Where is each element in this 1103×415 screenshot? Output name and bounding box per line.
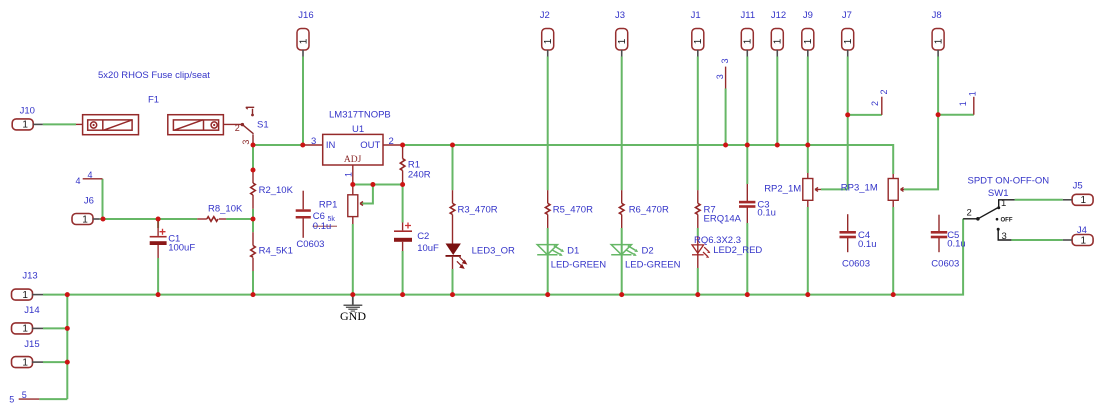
svg-text:D2: D2 xyxy=(642,246,654,257)
svg-text:U1: U1 xyxy=(352,124,364,135)
svg-text:1: 1 xyxy=(22,357,28,368)
svg-text:GND: GND xyxy=(340,309,366,323)
svg-text:RP3_1M: RP3_1M xyxy=(841,183,878,194)
svg-text:C0603: C0603 xyxy=(842,259,870,270)
svg-text:J14: J14 xyxy=(24,305,39,316)
svg-text:0.1u: 0.1u xyxy=(858,239,877,250)
svg-text:1: 1 xyxy=(1001,198,1006,209)
svg-text:2: 2 xyxy=(967,208,972,219)
svg-text:1: 1 xyxy=(843,38,854,44)
svg-text:J16: J16 xyxy=(298,10,313,21)
svg-text:D1: D1 xyxy=(567,246,579,257)
svg-text:OUT: OUT xyxy=(360,140,380,151)
svg-text:1: 1 xyxy=(934,38,945,44)
svg-text:SPDT ON-OFF-ON: SPDT ON-OFF-ON xyxy=(968,176,1050,187)
svg-text:1: 1 xyxy=(22,120,28,131)
svg-text:J15: J15 xyxy=(24,339,39,350)
svg-text:5: 5 xyxy=(9,395,14,405)
svg-text:R2_10K: R2_10K xyxy=(259,185,294,196)
svg-text:1: 1 xyxy=(298,38,309,44)
svg-text:J2: J2 xyxy=(540,10,550,21)
svg-text:R4_5K1: R4_5K1 xyxy=(259,246,293,257)
svg-text:R8_10K: R8_10K xyxy=(208,204,243,215)
svg-text:C0603: C0603 xyxy=(296,239,324,250)
svg-text:R3_470R: R3_470R xyxy=(458,205,498,216)
svg-text:J9: J9 xyxy=(803,10,813,21)
svg-text:4: 4 xyxy=(76,176,81,186)
svg-text:F1: F1 xyxy=(148,95,159,106)
svg-text:R6_470R: R6_470R xyxy=(629,205,669,216)
svg-text:1: 1 xyxy=(22,324,28,335)
svg-text:1: 1 xyxy=(344,172,354,177)
svg-text:LM317TNOPB: LM317TNOPB xyxy=(329,110,391,121)
svg-text:LED2_RED: LED2_RED xyxy=(713,245,762,256)
svg-text:J13: J13 xyxy=(22,271,37,282)
svg-text:3: 3 xyxy=(715,74,725,79)
svg-text:3: 3 xyxy=(1002,231,1007,242)
svg-text:J4: J4 xyxy=(1077,225,1087,236)
svg-text:J11: J11 xyxy=(741,10,756,21)
svg-text:C2: C2 xyxy=(417,231,429,242)
svg-text:C0603: C0603 xyxy=(931,259,959,270)
svg-text:1: 1 xyxy=(693,38,704,44)
svg-text:LED3_OR: LED3_OR xyxy=(472,246,515,257)
svg-text:1: 1 xyxy=(1081,195,1087,206)
svg-text:LED-GREEN: LED-GREEN xyxy=(551,260,607,271)
svg-text:RP2_1M: RP2_1M xyxy=(764,184,801,195)
svg-text:1: 1 xyxy=(773,38,784,44)
svg-text:2: 2 xyxy=(389,136,394,147)
svg-text:10uF: 10uF xyxy=(417,243,439,254)
svg-text:LED-GREEN: LED-GREEN xyxy=(625,260,681,271)
svg-text:1: 1 xyxy=(968,91,978,96)
svg-text:J6: J6 xyxy=(84,196,94,207)
svg-text:ADJ: ADJ xyxy=(344,155,362,165)
svg-text:IN: IN xyxy=(326,140,336,151)
svg-text:100uF: 100uF xyxy=(168,243,195,254)
svg-text:0.1u: 0.1u xyxy=(313,221,332,232)
svg-text:J12: J12 xyxy=(771,10,786,21)
svg-text:0.1u: 0.1u xyxy=(757,208,776,219)
svg-text:J1: J1 xyxy=(691,10,701,21)
svg-text:3: 3 xyxy=(241,140,251,145)
svg-text:3: 3 xyxy=(311,136,316,147)
svg-text:OFF: OFF xyxy=(1001,218,1013,224)
svg-text:1: 1 xyxy=(22,290,28,301)
svg-text:J8: J8 xyxy=(932,10,942,21)
svg-text:4: 4 xyxy=(88,170,93,180)
svg-text:RP1: RP1 xyxy=(319,200,337,211)
svg-text:3: 3 xyxy=(720,58,730,63)
svg-text:J5: J5 xyxy=(1073,181,1083,192)
svg-text:5x20 RHOS Fuse clip/seat: 5x20 RHOS Fuse clip/seat xyxy=(98,70,210,81)
svg-text:1: 1 xyxy=(958,101,968,106)
svg-text:1: 1 xyxy=(82,214,88,225)
svg-text:2: 2 xyxy=(235,123,240,133)
svg-text:1: 1 xyxy=(803,38,814,44)
svg-text:1: 1 xyxy=(743,38,754,44)
svg-text:0.1u: 0.1u xyxy=(947,239,966,250)
svg-text:1: 1 xyxy=(543,38,554,44)
svg-text:ERQ14A: ERQ14A xyxy=(704,214,742,225)
svg-text:J10: J10 xyxy=(20,106,35,117)
svg-text:2: 2 xyxy=(879,89,889,94)
svg-text:5: 5 xyxy=(22,390,27,400)
svg-text:240R: 240R xyxy=(408,170,431,181)
svg-text:1: 1 xyxy=(1081,235,1087,246)
svg-text:J7: J7 xyxy=(842,10,852,21)
svg-text:J3: J3 xyxy=(615,10,625,21)
svg-text:1: 1 xyxy=(617,38,628,44)
svg-text:S1: S1 xyxy=(257,120,269,131)
svg-text:R5_470R: R5_470R xyxy=(553,205,593,216)
svg-text:2: 2 xyxy=(870,101,880,106)
